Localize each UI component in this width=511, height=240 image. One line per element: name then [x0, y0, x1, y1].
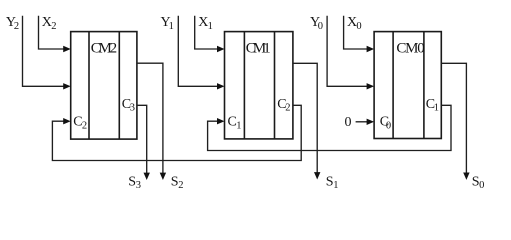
label S1 — [326, 174, 339, 191]
label Y1 — [161, 15, 174, 32]
wire carry C1 from CM0 to CM1 — [208, 105, 451, 150]
label S2 — [171, 174, 184, 191]
label X0 — [347, 15, 362, 32]
svg-text:0: 0 — [345, 115, 352, 130]
label C1 inside CM1 — [228, 115, 242, 132]
block CM1 — [225, 32, 293, 139]
label X2 — [42, 15, 57, 32]
wire Y2 input — [23, 16, 71, 90]
svg-text:0: 0 — [318, 21, 323, 32]
wire S3 output from C3 — [137, 105, 150, 180]
label C2 inside CM1 right column — [277, 97, 290, 114]
wire X0 input — [344, 16, 375, 52]
svg-text:0: 0 — [356, 21, 361, 32]
svg-text:3: 3 — [136, 180, 141, 191]
label C2 inside CM2 — [73, 115, 87, 132]
svg-text:2: 2 — [14, 21, 19, 32]
svg-text:2: 2 — [178, 180, 183, 191]
svg-text:0: 0 — [386, 120, 391, 131]
label X1 — [198, 15, 213, 32]
label C3 inside CM2 right column — [122, 97, 135, 114]
wire carry C2 from CM1 to CM2 — [52, 105, 301, 160]
label Y0 — [310, 15, 323, 32]
label S0 — [472, 174, 485, 191]
wire S2 output from CM2 — [137, 63, 166, 180]
svg-text:3: 3 — [130, 103, 135, 114]
label C0 inside CM0 — [380, 115, 391, 132]
svg-text:1: 1 — [333, 180, 338, 191]
label S3 — [128, 174, 141, 191]
wire X1 input — [195, 16, 225, 52]
svg-text:2: 2 — [285, 103, 290, 114]
svg-text:CM2: CM2 — [91, 40, 117, 56]
svg-text:1: 1 — [169, 21, 174, 32]
svg-text:2: 2 — [51, 21, 56, 32]
wire Y0 input — [327, 16, 374, 90]
wire X2 input — [39, 16, 71, 52]
label Y2 — [6, 15, 19, 32]
svg-text:1: 1 — [434, 103, 439, 114]
svg-text:1: 1 — [208, 21, 213, 32]
wire S1 output from CM1 — [293, 63, 321, 179]
svg-text:1: 1 — [236, 120, 241, 131]
svg-text:CM1: CM1 — [246, 40, 271, 56]
wire S0 output from CM0 — [441, 63, 469, 180]
label C1 inside CM0 right column — [426, 97, 439, 114]
svg-text:0: 0 — [479, 180, 484, 191]
block CM0 — [374, 32, 441, 139]
wire Y1 input — [178, 16, 224, 90]
svg-text:CM0: CM0 — [396, 40, 424, 56]
block CM2 — [71, 32, 137, 140]
wire 0 input to C0 — [356, 119, 375, 125]
svg-text:2: 2 — [82, 120, 87, 131]
